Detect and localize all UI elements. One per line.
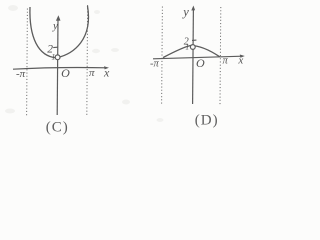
asymptote dotted line x=-pi (C) (26, 9, 29, 118)
svg-text:y: y (181, 5, 189, 19)
x axis (C) (13, 67, 107, 69)
svg-text:1: 1 (185, 42, 189, 51)
svg-text:π: π (223, 56, 229, 67)
scan speckles (5, 5, 164, 122)
asymptote dotted line x=-pi (D) (161, 7, 164, 106)
svg-text:y: y (52, 20, 58, 32)
svg-text:(C): (C) (46, 120, 69, 136)
svg-text:(D): (D) (195, 113, 219, 129)
svg-text:O: O (61, 66, 70, 80)
svg-text:O: O (196, 56, 205, 70)
svg-text:-π: -π (16, 68, 26, 80)
asymptote dotted line x=pi (C) (86, 5, 89, 117)
x axis (D) (153, 56, 243, 59)
x axis arrowhead (C) (104, 66, 109, 69)
svg-text:-π: -π (150, 58, 159, 69)
x axis arrowhead (D) (240, 55, 245, 58)
y axis arrowhead (C) (56, 15, 61, 21)
tick y=2 (D) (192, 39, 196, 41)
asymptote dotted line x=pi (D) (219, 7, 222, 105)
svg-text:x: x (103, 65, 110, 79)
svg-text:x: x (237, 54, 243, 66)
curve y=sec^2(x/2)-like U shape (C) (30, 6, 89, 58)
background paper (0, 0, 256, 142)
svg-text:π: π (89, 67, 95, 79)
y axis (D) (192, 8, 195, 104)
open circle point (0,1) (D) (190, 45, 195, 50)
tick y=2 (C) (53, 46, 58, 48)
y axis (C) (56, 19, 59, 116)
open circle point (0,1) (C) (55, 55, 60, 60)
curve hump y=1+cos x like (D) (163, 45, 220, 57)
y axis arrowhead (D) (191, 6, 195, 11)
